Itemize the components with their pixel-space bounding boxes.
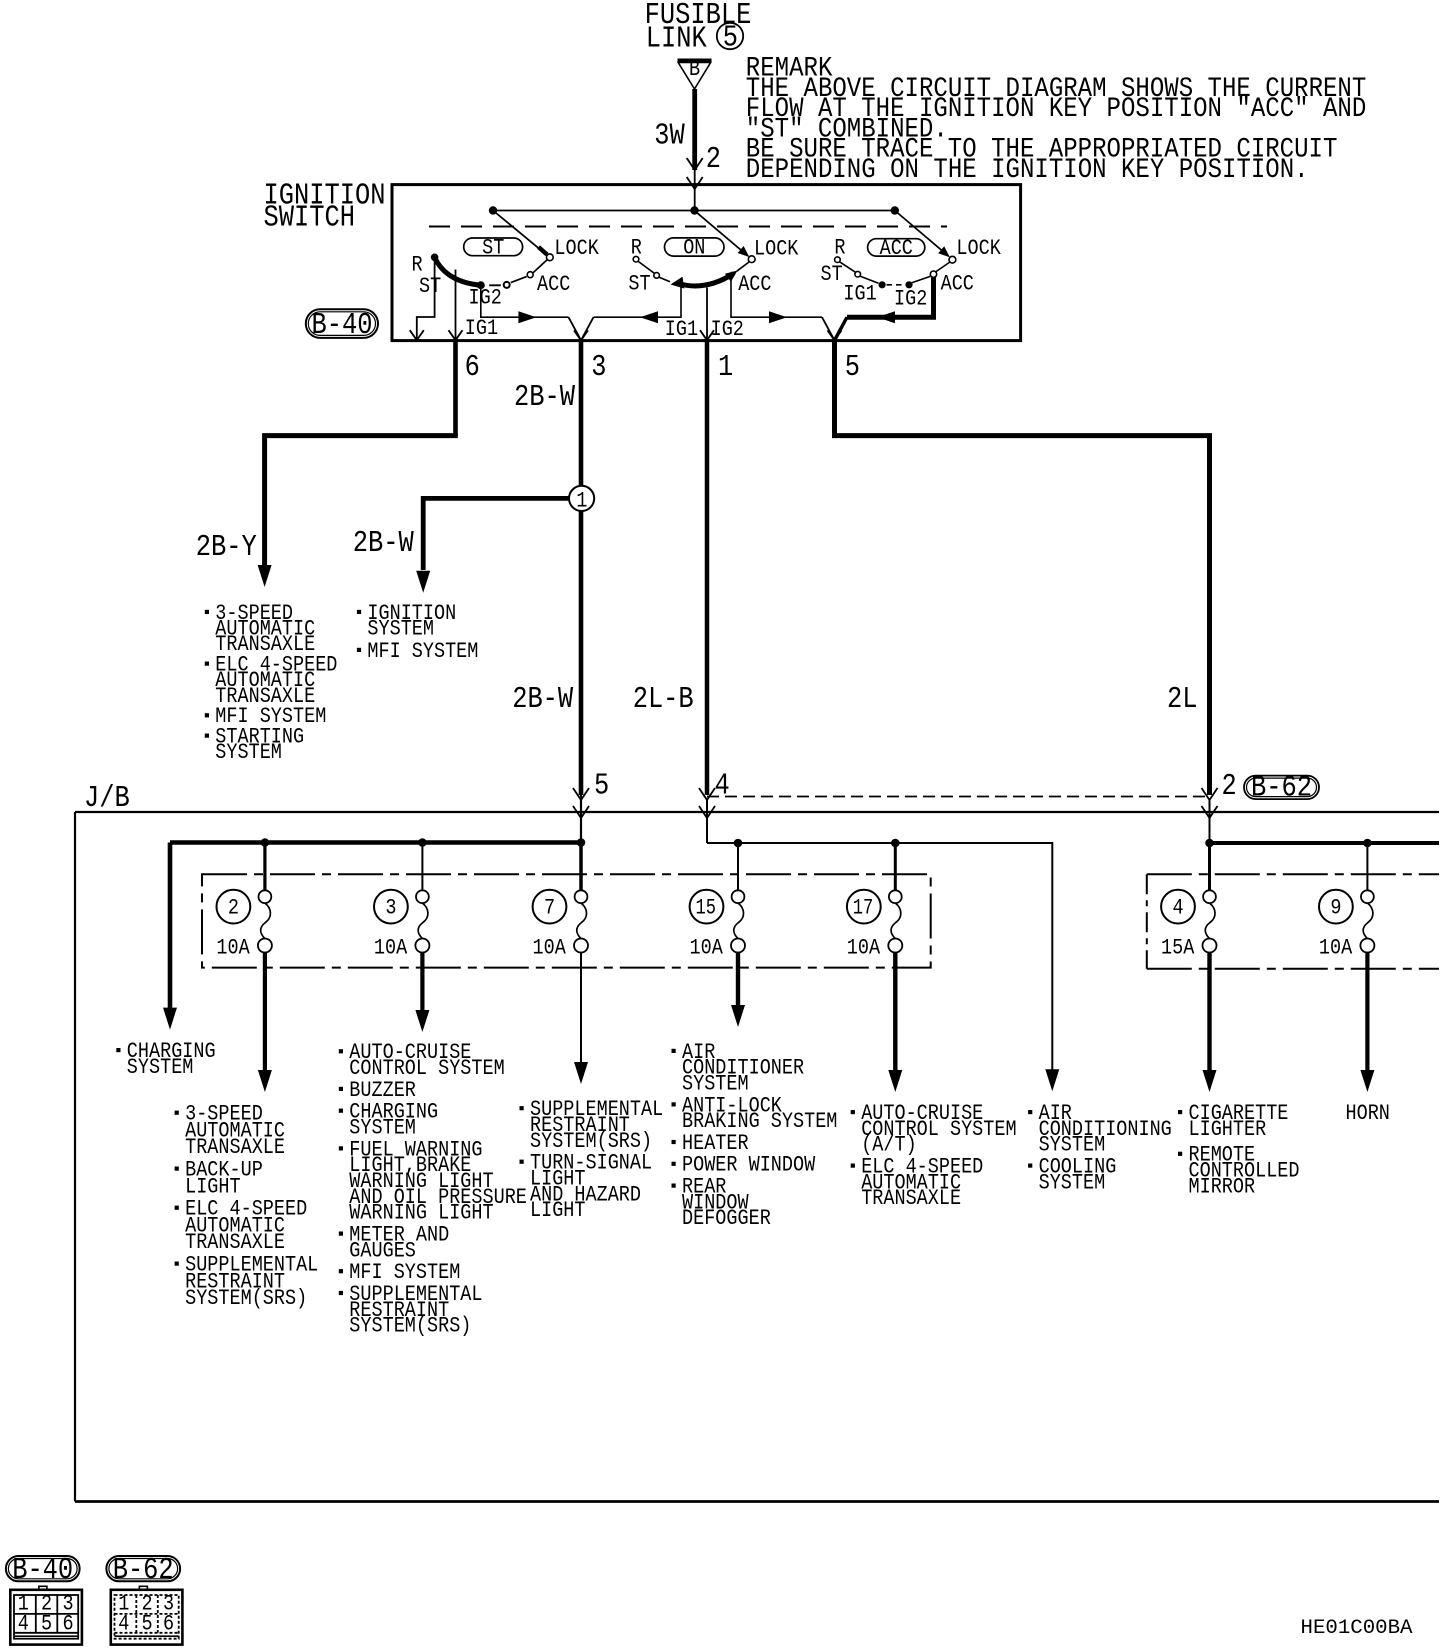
svg-text:3W: 3W: [654, 119, 685, 154]
svg-text:SYSTEM(SRS): SYSTEM(SRS): [185, 1286, 307, 1311]
svg-text:SYSTEM: SYSTEM: [215, 740, 282, 765]
svg-text:17: 17: [853, 896, 874, 921]
svg-text:LIGHT: LIGHT: [185, 1174, 241, 1199]
svg-text:3: 3: [591, 350, 606, 385]
svg-text:IG2: IG2: [469, 285, 502, 310]
svg-text:10A: 10A: [216, 936, 250, 961]
svg-text:10A: 10A: [847, 936, 881, 961]
svg-text:5: 5: [142, 1612, 153, 1637]
svg-text:6: 6: [63, 1612, 74, 1637]
svg-text:ACC: ACC: [537, 272, 570, 297]
svg-text:TRANSAXLE: TRANSAXLE: [861, 1186, 961, 1211]
svg-text:SYSTEM: SYSTEM: [127, 1055, 194, 1080]
svg-text:MIRROR: MIRROR: [1189, 1174, 1256, 1199]
svg-text:B-40: B-40: [312, 308, 373, 343]
svg-text:5: 5: [41, 1612, 52, 1637]
svg-text:TRANSAXLE: TRANSAXLE: [185, 1135, 285, 1160]
svg-text:HE01C00BA: HE01C00BA: [1301, 1617, 1413, 1640]
svg-text:ACC: ACC: [880, 236, 913, 261]
svg-text:IG1: IG1: [465, 316, 498, 341]
svg-text:ON: ON: [683, 236, 705, 261]
svg-text:LIGHT: LIGHT: [530, 1198, 586, 1223]
svg-text:IG1: IG1: [843, 282, 876, 307]
svg-text:SWITCH: SWITCH: [264, 200, 356, 235]
svg-text:6: 6: [465, 350, 480, 385]
svg-text:5: 5: [723, 21, 738, 56]
svg-text:SYSTEM(SRS): SYSTEM(SRS): [349, 1314, 471, 1339]
svg-text:2L-B: 2L-B: [633, 682, 694, 717]
svg-text:TRANSAXLE: TRANSAXLE: [185, 1230, 285, 1255]
svg-text:LOCK: LOCK: [754, 237, 799, 262]
svg-text:ST: ST: [628, 271, 650, 296]
svg-text:MFI SYSTEM: MFI SYSTEM: [367, 639, 478, 664]
svg-text:2B-W: 2B-W: [514, 380, 575, 415]
svg-text:4: 4: [118, 1612, 129, 1637]
svg-text:2L: 2L: [1167, 682, 1198, 717]
svg-text:LOCK: LOCK: [956, 236, 1001, 261]
svg-text:10A: 10A: [374, 936, 408, 961]
svg-text:4: 4: [715, 769, 730, 804]
svg-text:ST: ST: [419, 274, 441, 299]
svg-text:5: 5: [845, 350, 860, 385]
svg-text:B-62: B-62: [113, 1553, 174, 1588]
svg-text:HORN: HORN: [1346, 1101, 1390, 1126]
svg-text:2B-Y: 2B-Y: [196, 530, 257, 565]
svg-text:ACC: ACC: [941, 271, 974, 296]
svg-text:4: 4: [18, 1612, 29, 1637]
svg-text:2: 2: [228, 896, 239, 921]
svg-text:10A: 10A: [533, 936, 567, 961]
svg-text:DEFOGGER: DEFOGGER: [682, 1206, 771, 1231]
svg-text:ST: ST: [482, 236, 504, 261]
svg-text:3: 3: [385, 896, 396, 921]
svg-text:ST: ST: [821, 262, 843, 287]
svg-text:1: 1: [576, 488, 587, 513]
svg-text:LOCK: LOCK: [554, 236, 599, 261]
svg-text:6: 6: [163, 1612, 174, 1637]
svg-text:2: 2: [1222, 769, 1237, 804]
svg-text:B-40: B-40: [12, 1553, 73, 1588]
svg-text:B: B: [689, 57, 700, 82]
svg-text:15A: 15A: [1161, 936, 1195, 961]
svg-text:J/B: J/B: [84, 781, 130, 816]
svg-text:9: 9: [1330, 896, 1341, 921]
svg-text:10A: 10A: [1319, 936, 1353, 961]
svg-text:ACC: ACC: [738, 272, 771, 297]
svg-text:B-62: B-62: [1251, 771, 1312, 806]
svg-text:4: 4: [1173, 896, 1184, 921]
svg-text:1: 1: [718, 350, 733, 385]
svg-text:2: 2: [706, 142, 721, 177]
svg-text:IG1: IG1: [665, 317, 698, 342]
svg-text:5: 5: [594, 769, 609, 804]
svg-text:SYSTEM: SYSTEM: [1039, 1170, 1106, 1195]
svg-text:7: 7: [544, 896, 555, 921]
svg-text:LIGHTER: LIGHTER: [1189, 1117, 1267, 1142]
svg-text:LINK: LINK: [646, 22, 707, 57]
svg-text:DEPENDING ON THE IGNITION KEY: DEPENDING ON THE IGNITION KEY POSITION.: [746, 155, 1309, 186]
svg-text:2B-W: 2B-W: [353, 526, 414, 561]
svg-text:15: 15: [696, 896, 717, 921]
svg-text:2B-W: 2B-W: [512, 682, 573, 717]
svg-text:10A: 10A: [690, 936, 724, 961]
svg-text:IG2: IG2: [894, 287, 927, 312]
svg-text:IG2: IG2: [711, 317, 744, 342]
